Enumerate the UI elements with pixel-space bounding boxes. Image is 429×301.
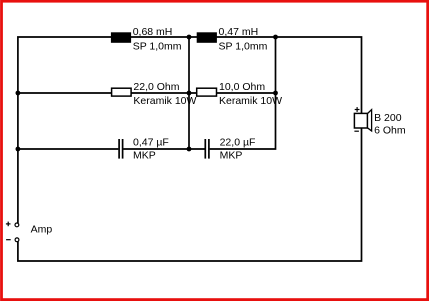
wire resistor row	[18, 92, 276, 94]
svg-text:22,0 µF: 22,0 µF	[220, 136, 256, 148]
junction resistor row right	[273, 91, 278, 96]
minus polarity mark Amp	[6, 239, 11, 241]
speaker LS1 cone	[367, 110, 371, 131]
terminal minus Amp	[15, 238, 19, 242]
plus polarity mark Amp	[6, 222, 11, 227]
inductor L2 0,47 mH	[197, 32, 217, 43]
svg-text:0,47 µF: 0,47 µF	[133, 136, 169, 148]
svg-text:6 Ohm: 6 Ohm	[374, 124, 406, 136]
wire minus terminal to bottom rail to speaker	[18, 128, 362, 261]
svg-text:B 200: B 200	[374, 112, 402, 124]
svg-text:MKP: MKP	[133, 149, 156, 161]
resistor R1 22,0 Ohm	[112, 88, 132, 96]
speaker minus polarity mark	[354, 130, 359, 132]
wire right bus down to cap row	[210, 38, 276, 149]
speaker plus polarity mark	[355, 107, 360, 112]
junction top right	[273, 35, 278, 40]
svg-text:SP 1,0mm: SP 1,0mm	[133, 40, 182, 52]
wire cap row C1 to C2	[123, 148, 204, 150]
svg-text:Keramik 10W: Keramik 10W	[133, 95, 196, 107]
wire cap row left of C1	[18, 148, 119, 150]
wire middle bus	[188, 38, 190, 149]
capacitor C2 22,0 uF	[205, 139, 209, 159]
wire left bus and top rail to speaker	[18, 37, 362, 223]
svg-text:MKP: MKP	[220, 149, 243, 161]
junction top middle	[187, 35, 192, 40]
svg-text:0,47 mH: 0,47 mH	[219, 26, 259, 38]
svg-text:Amp: Amp	[31, 223, 53, 235]
junction cap row left	[16, 147, 21, 152]
capacitor C1 0,47 uF	[119, 139, 123, 159]
svg-text:22,0 Ohm: 22,0 Ohm	[133, 81, 179, 93]
svg-text:10,0 Ohm: 10,0 Ohm	[219, 81, 265, 93]
svg-text:Keramik 10W: Keramik 10W	[219, 95, 282, 107]
inductor L1 0,68 mH	[111, 32, 131, 43]
junction resistor row middle	[187, 91, 192, 96]
resistor R2 10,0 Ohm	[197, 88, 217, 96]
svg-text:0,68 mH: 0,68 mH	[133, 26, 173, 38]
terminal plus Amp	[15, 223, 19, 227]
junction resistor row left	[16, 91, 21, 96]
svg-text:SP 1,0mm: SP 1,0mm	[219, 40, 268, 52]
speaker LS1 B 200 body	[354, 113, 367, 128]
junction cap row middle	[187, 147, 192, 152]
